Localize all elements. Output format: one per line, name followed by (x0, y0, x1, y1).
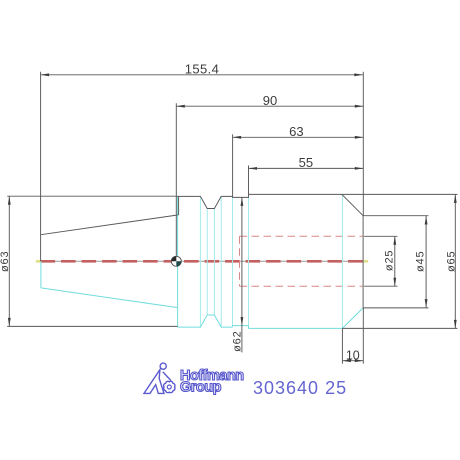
cyan bottom chamfer (342, 308, 363, 329)
svg-text:ø65: ø65 (446, 251, 458, 272)
dim 10 ext right (362, 308, 364, 364)
cyan vertical step ø63/ø62 (232, 196, 234, 326)
dim 10 arrow left (342, 359, 351, 362)
taper top silhouette (41, 215, 178, 235)
node balance dot at gauge plane (171, 256, 181, 266)
ø65 top edge + extension to ø65 dim (249, 193, 458, 195)
dim 63 arrow right (355, 136, 364, 139)
Hoffmann Group logo mark (144, 363, 175, 393)
svg-text:ø45: ø45 (414, 251, 426, 272)
dim 63 line (233, 136, 364, 138)
dim 155.4 arrow left (41, 73, 50, 76)
ø45 top extension (363, 215, 428, 217)
dim ø45 arrow top (425, 216, 428, 225)
body left face + ext line 155.4 (40, 72, 42, 261)
svg-text:ø63: ø63 (0, 251, 11, 272)
dim 10 arrow right (355, 359, 364, 362)
dim 63 arrow left (233, 136, 242, 139)
dim 55 arrow left (249, 167, 258, 170)
ø65 bottom extension line (342, 327, 457, 329)
cyan vertical groove left inner (206, 209, 208, 316)
dim 155.4 arrow right (354, 73, 363, 76)
svg-text:ø25: ø25 (384, 250, 396, 271)
bore ø25 hidden top (240, 235, 363, 237)
centerline red dashes (41, 260, 363, 263)
dim 10 line (342, 360, 363, 362)
dim ø63 arrow bottom (8, 318, 11, 327)
svg-text:10: 10 (346, 348, 360, 362)
dim ø65 arrow bottom (454, 320, 457, 329)
dim 55 arrow right (355, 167, 364, 170)
dim 10 ext left (341, 328, 343, 363)
cyan flange bottom with notch (178, 315, 233, 327)
cyan vertical groove right outer (220, 196, 222, 327)
ø25 top extension (364, 235, 397, 237)
ø63 extension bottom (7, 325, 177, 327)
ext line right of all top dims (362, 72, 364, 216)
bore ø25 hidden bottom (240, 285, 363, 287)
dim ø65 line (454, 194, 456, 328)
dim ø25 line (394, 236, 396, 286)
dim ø62 line (241, 197, 243, 352)
dim ø63 arrow top (8, 196, 11, 205)
ø25 bottom extension (364, 285, 397, 287)
centerline yellow end right (364, 260, 369, 263)
svg-text:155.4: 155.4 (185, 62, 220, 77)
dim 90 arrow left (176, 105, 185, 108)
bore ø25 hidden left end (239, 236, 241, 286)
right end face (362, 216, 364, 308)
taper gauge line (178, 196, 180, 215)
cyan ø65 bottom (249, 327, 343, 329)
dim 55 ext line left (248, 165, 250, 194)
dim 55 line (249, 167, 364, 169)
cyan neck ø62 bottom (233, 326, 249, 329)
svg-text:303640 25: 303640 25 (253, 378, 347, 398)
top chamfer (342, 194, 363, 215)
cyan vertical step ø62/ø65 (248, 194, 250, 328)
svg-text:63: 63 (289, 124, 303, 139)
dim 155.4 line (41, 74, 363, 76)
dim ø45 arrow bottom (425, 299, 428, 308)
svg-text:Group: Group (180, 380, 222, 396)
dim ø62 arrow top (241, 197, 244, 206)
cyan vertical groove right inner (213, 209, 215, 316)
cyan vertical chamfer start (341, 194, 343, 328)
dim ø25 arrow top (393, 236, 396, 245)
cyan vertical flange left face (177, 196, 179, 327)
dim ø45 line (425, 216, 427, 308)
centerline gray underlay (41, 260, 363, 262)
svg-text:ø62: ø62 (231, 331, 243, 352)
dim 63 ext line left (232, 134, 234, 196)
cyan vertical groove left outer (199, 196, 201, 327)
ø45 bottom extension (363, 307, 428, 309)
svg-text:90: 90 (263, 93, 277, 108)
dim ø25 arrow bottom (393, 278, 396, 287)
dim ø63 line left (8, 196, 10, 326)
cyan taper bottom silhouette (41, 288, 178, 308)
svg-text:55: 55 (299, 155, 313, 170)
dim ø65 arrow top (454, 194, 457, 203)
dim ø62 arrow bottom (241, 317, 244, 326)
flange left face + ext line 90 (175, 103, 177, 261)
dim 90 arrow right (355, 105, 364, 108)
flange top edge with V groove (178, 194, 249, 208)
dim 90 line (176, 105, 363, 107)
cyan left face lower half (40, 261, 42, 288)
centerline yellow end left (36, 260, 41, 263)
ø63 extension top (7, 195, 177, 197)
